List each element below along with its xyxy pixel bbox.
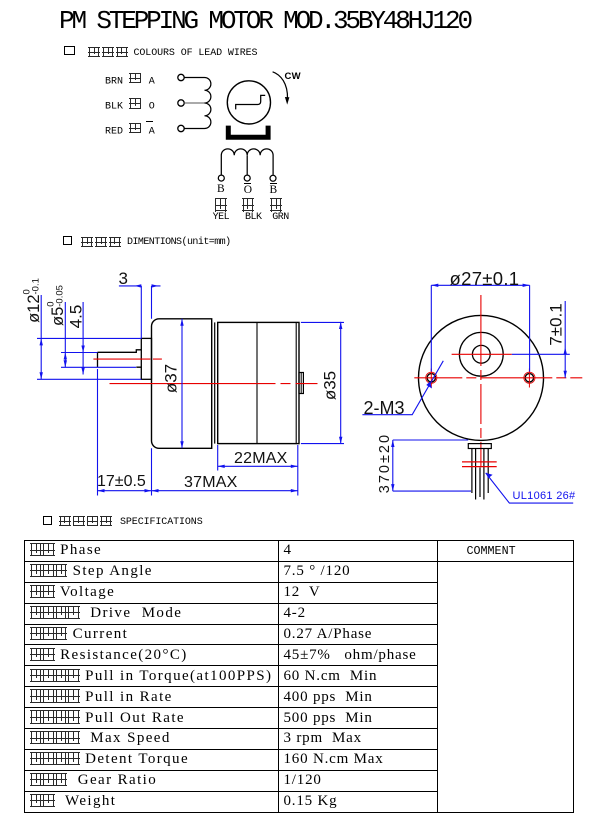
rotor symbol	[236, 95, 266, 109]
dimension label phi37	[163, 363, 180, 395]
lead wire 3	[483, 449, 485, 500]
centerline boss horizontal	[452, 353, 512, 355]
node title	[59, 8, 470, 34]
node terminal label O-bar	[244, 185, 252, 197]
centerline front vertical	[480, 295, 482, 467]
side view motor body	[218, 322, 299, 443]
dimension 22MAX	[218, 445, 298, 471]
centerline main axis	[110, 383, 318, 385]
dimension 17	[98, 369, 152, 496]
terminal Bbar	[270, 175, 276, 181]
dimension label 2-M3	[364, 399, 405, 417]
terminal Abar	[178, 125, 184, 131]
dimension label 22MAX	[234, 451, 287, 467]
terminal O	[178, 100, 184, 106]
node section2 header	[81, 237, 122, 251]
front view outer circle	[419, 315, 544, 440]
side view body seam	[256, 322, 258, 443]
terminal Obar	[244, 175, 250, 181]
node overline A-bar	[146, 121, 153, 122]
side view front boss	[141, 338, 151, 379]
motor M1 rotor circle	[227, 81, 270, 124]
node color label YEL	[215, 198, 227, 214]
dimension 3	[119, 286, 161, 339]
centerline shaft axis	[93, 358, 162, 360]
dimension phi35	[301, 322, 344, 444]
side view shaft	[98, 350, 142, 367]
dimension label phi27	[450, 270, 520, 289]
centerline hole left	[430, 369, 432, 388]
dimension label 7	[548, 302, 565, 348]
dimension 370	[393, 440, 471, 491]
dimension label 37MAX	[184, 475, 237, 491]
dimension label phi12	[23, 277, 42, 325]
lead wire 1	[471, 449, 473, 494]
lead wires connector	[468, 444, 491, 449]
dimension 4.5	[82, 302, 84, 375]
node section1 checkbox	[64, 46, 75, 55]
dimension phi37	[181, 319, 183, 449]
node CW label	[285, 72, 301, 82]
coil L1 stator winding	[184, 78, 211, 129]
front view shaft circle	[472, 345, 490, 363]
node terminal label B-bar	[270, 185, 278, 197]
side view flange line	[214, 322, 216, 443]
dimension 7	[512, 301, 570, 378]
lead wire 2	[475, 449, 477, 500]
lead wire 5	[479, 468, 481, 498]
dimension label 3	[119, 270, 128, 287]
front view boss circle	[459, 332, 503, 376]
dimension 37MAX	[152, 445, 298, 496]
wire middle tap	[184, 102, 204, 104]
terminal B	[218, 175, 224, 181]
hole M3 right	[525, 374, 533, 382]
dimension label UL1061	[513, 491, 576, 502]
dimension phi27	[431, 285, 529, 371]
wire L2 center tap	[246, 155, 248, 175]
side view rear boss line	[300, 373, 302, 394]
CW rotation arrow	[273, 72, 288, 99]
dimension label phi35	[322, 370, 339, 402]
node wire label BLK	[105, 98, 155, 112]
leader 2-M3	[362, 361, 443, 415]
lead wire 4	[487, 449, 489, 494]
side view gearbox body	[152, 319, 212, 449]
node section1 header	[88, 47, 129, 61]
node section3 checkbox	[43, 516, 52, 525]
dimension label 370	[378, 433, 393, 493]
centerline front horizontal	[414, 377, 582, 379]
dimension phi12	[37, 295, 141, 379]
hole M3 left	[427, 374, 435, 382]
side view end cap line	[295, 322, 297, 443]
side view rear boss	[299, 373, 303, 394]
node terminal label B	[217, 184, 225, 196]
mounting bracket	[226, 126, 271, 140]
leader UL1061	[486, 473, 574, 503]
dimension label phi5	[47, 282, 66, 330]
centerline hole right	[528, 369, 530, 388]
dimension label 4.5	[67, 301, 84, 333]
node wire label BRN	[105, 73, 155, 87]
node wire label RED	[105, 123, 155, 137]
node spec table	[24, 540, 574, 813]
node section3 header	[59, 516, 114, 530]
dimension phi5	[61, 302, 136, 367]
dimension label 17	[97, 474, 146, 490]
wire red marks	[462, 462, 497, 467]
terminal A	[178, 74, 184, 80]
node section2 checkbox	[63, 236, 72, 245]
coil L2 secondary winding	[221, 149, 273, 175]
